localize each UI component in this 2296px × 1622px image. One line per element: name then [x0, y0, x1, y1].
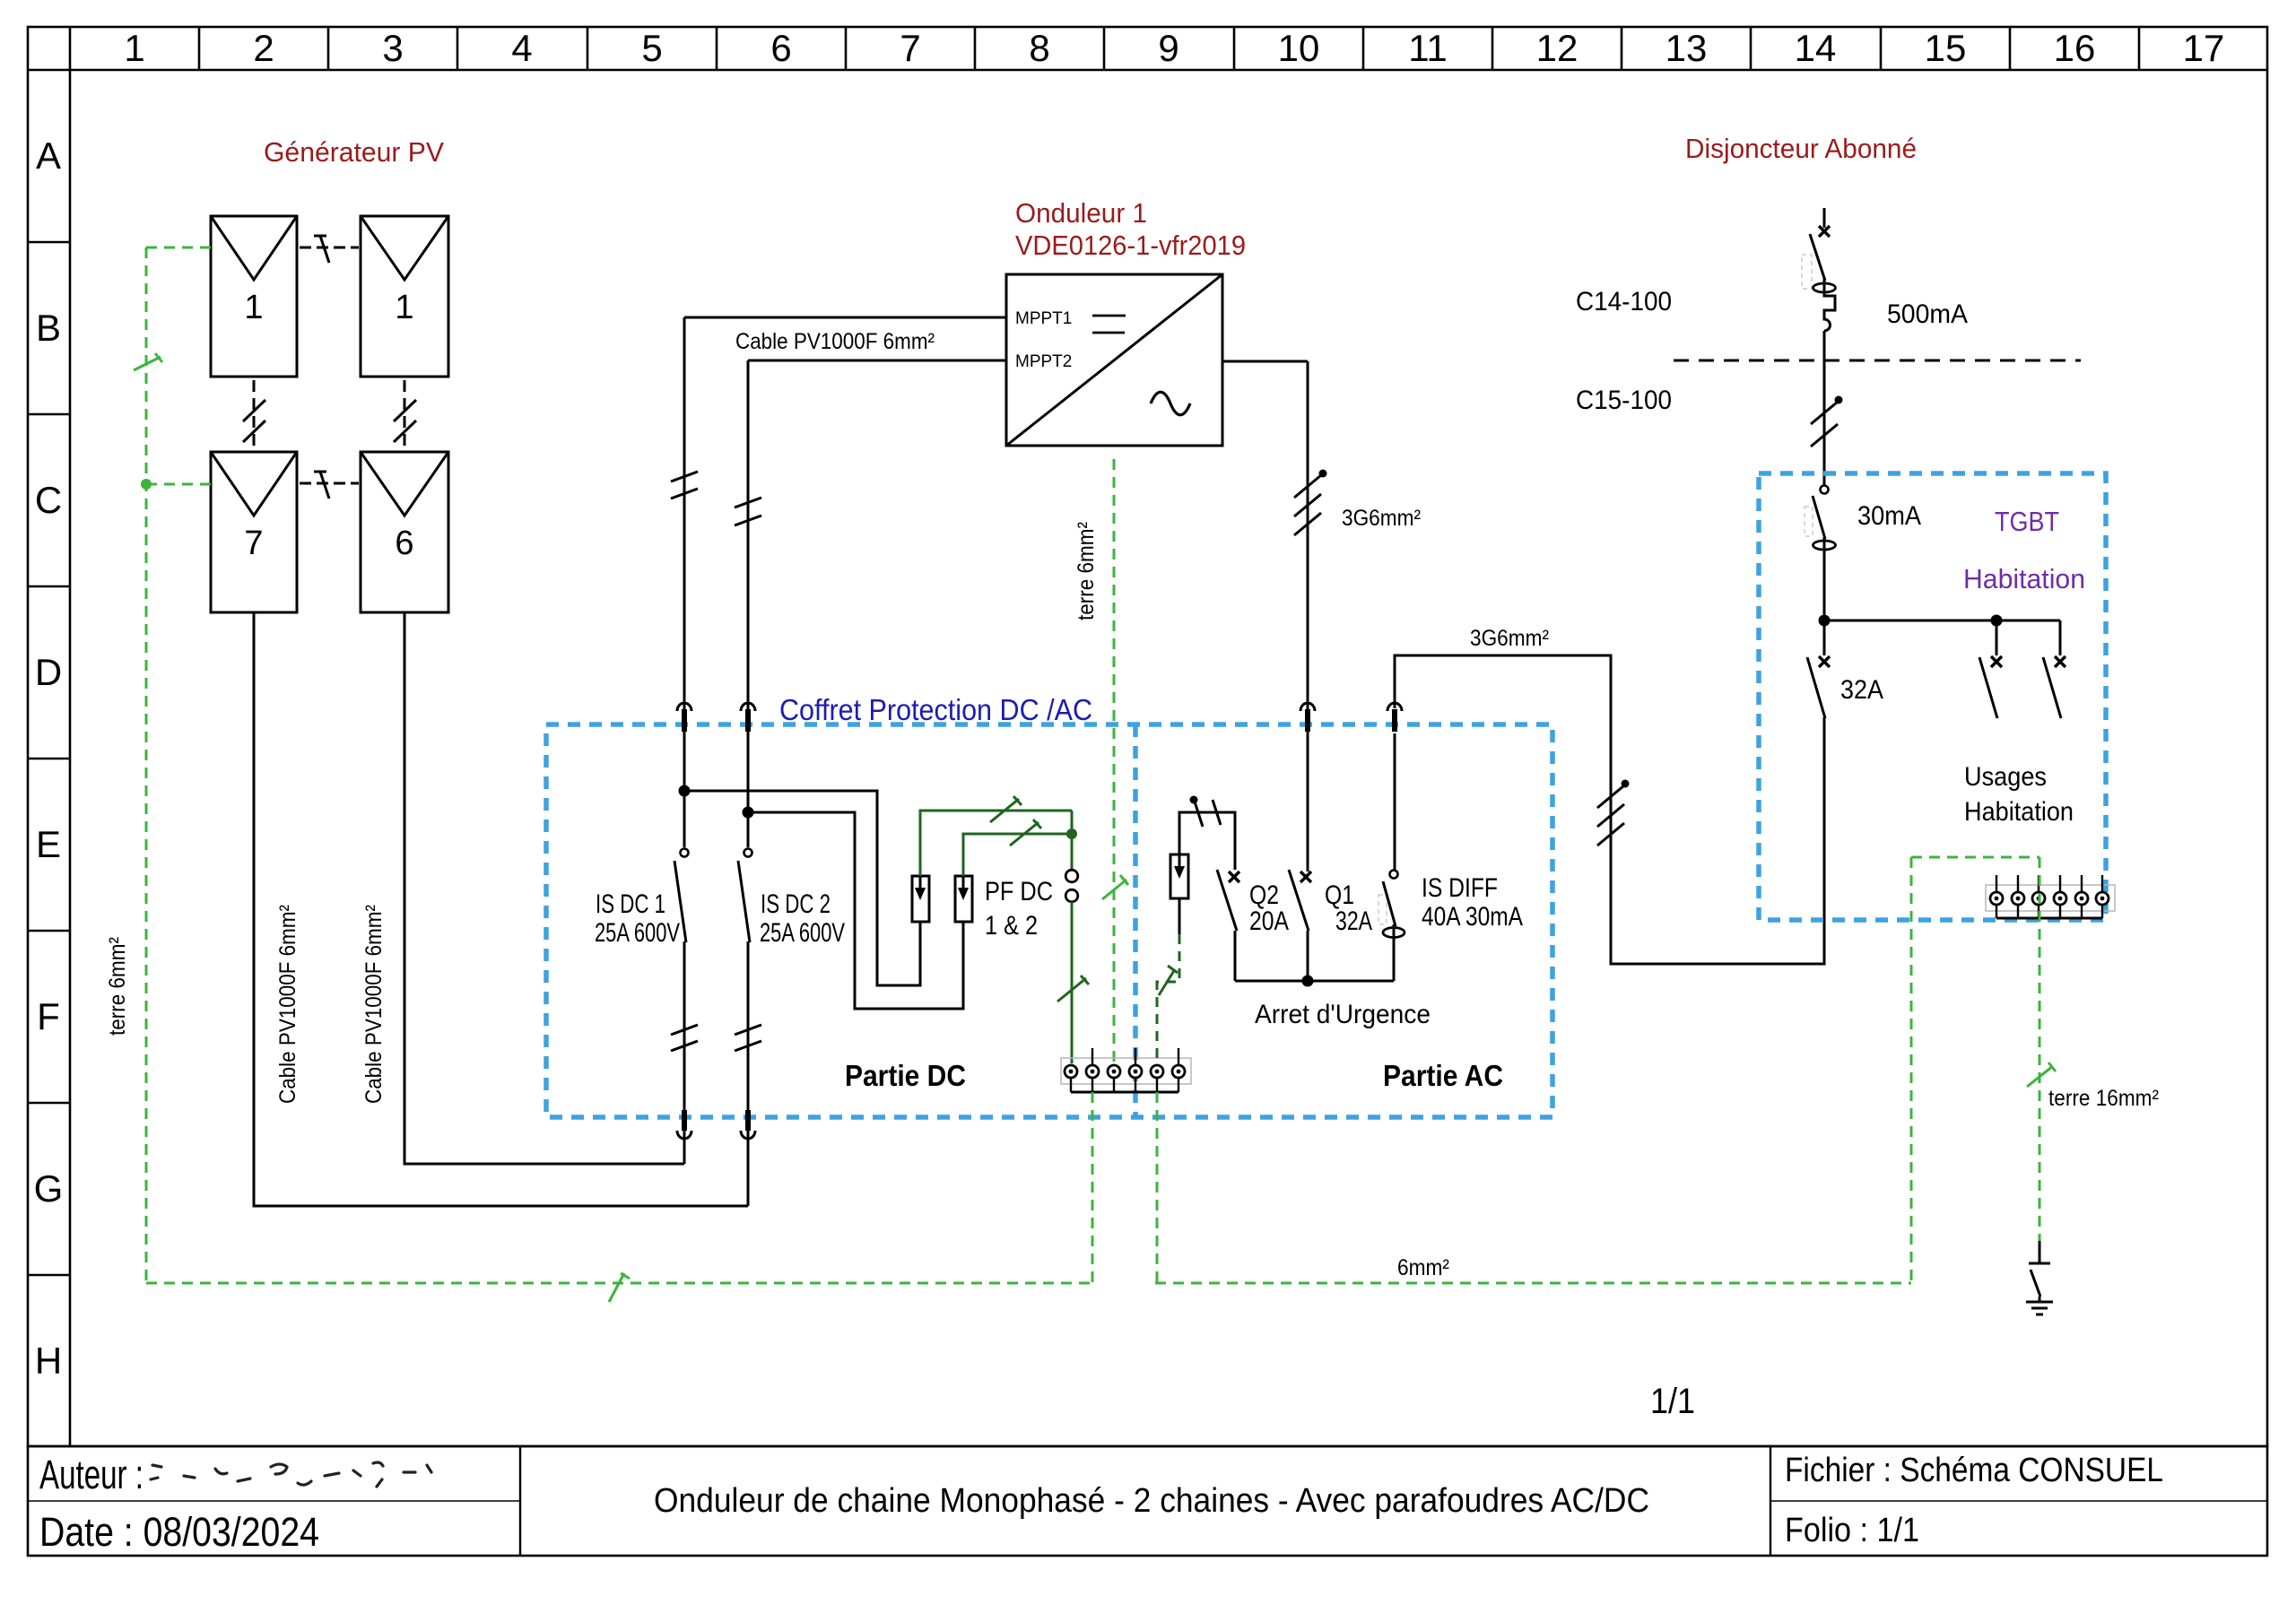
svg-text:Habitation: Habitation: [1963, 563, 2085, 594]
svg-text:1 & 2: 1 & 2: [985, 911, 1038, 941]
svg-text:Cable PV1000F 6mm²: Cable PV1000F 6mm²: [735, 329, 935, 354]
svg-text:1: 1: [124, 27, 144, 69]
wire MPPT1 string: [684, 317, 1006, 1164]
svg-text:MPPT2: MPPT2: [1015, 352, 1072, 371]
DC earth terminal bar: [1061, 1048, 1191, 1092]
svg-text:B: B: [36, 307, 61, 349]
svg-text:8: 8: [1029, 27, 1049, 69]
breaker Q2: [1217, 870, 1239, 981]
ground symbol: [2026, 1302, 2053, 1314]
switch IS DC 2: [738, 847, 753, 942]
inverter DC symbol: [1092, 316, 1126, 333]
breaker 32A: [1807, 620, 1830, 718]
breaker C14-100 500mA: [1802, 208, 1836, 403]
svg-text:32A: 32A: [1335, 906, 1372, 936]
cable mark C15 with dot: [1811, 396, 1843, 486]
svg-text:1: 1: [395, 289, 413, 326]
cable mark wire1 lower: [671, 1025, 698, 1051]
svg-text:20A: 20A: [1249, 906, 1289, 936]
svg-text:Auteur :: Auteur :: [39, 1452, 143, 1497]
svg-text:500mA: 500mA: [1887, 299, 1968, 329]
wire SPD DC 1 feed: [684, 791, 920, 985]
svg-text:D: D: [35, 651, 62, 693]
svg-text:1/1: 1/1: [1650, 1382, 1695, 1421]
svg-text:Onduleur de chaine Monophasé -: Onduleur de chaine Monophasé - 2 chaines…: [654, 1482, 1649, 1520]
svg-text:PF DC: PF DC: [985, 877, 1053, 906]
wire MPPT2 string: [748, 360, 1006, 1206]
inverter U1 box: [1006, 274, 1222, 446]
svg-text:Cable PV1000F 6mm²: Cable PV1000F 6mm²: [361, 905, 387, 1104]
svg-text:Fichier : Schéma CONSUEL: Fichier : Schéma CONSUEL: [1785, 1452, 2163, 1489]
svg-text:Disjoncteur Abonné: Disjoncteur Abonné: [1685, 133, 1917, 164]
svg-text:15: 15: [1925, 27, 1967, 69]
earth wire bottom run right: [1155, 857, 2039, 1283]
svg-text:MPPT1: MPPT1: [1015, 309, 1072, 328]
svg-text:terre 6mm²: terre 6mm²: [1074, 522, 1099, 620]
svg-text:13: 13: [1665, 27, 1708, 69]
cable mark TGBT link with dot: [1597, 780, 1630, 846]
coffret DC/AC divider: [1133, 724, 1138, 1117]
cable mark wire2 upper: [735, 498, 761, 525]
switch IS DC 1: [674, 847, 690, 942]
node junction AC bus: [1302, 976, 1314, 987]
earth slash bottom left run: [609, 1273, 630, 1302]
svg-text:Coffret Protection DC /AC: Coffret Protection DC /AC: [779, 693, 1092, 726]
earth slash on terre 6mm2 line: [1102, 875, 1128, 899]
top cable gland connector wire2: [741, 703, 755, 732]
earth slash SPD2: [1010, 820, 1041, 846]
cable mark wire1 upper: [671, 472, 698, 499]
breaker habitation 1: [1979, 620, 2002, 718]
wire PV string1 to coffret: [404, 612, 684, 1164]
svg-text:6mm²: 6mm²: [1397, 1255, 1449, 1280]
AC bus Arret d'Urgence: [1235, 980, 1394, 983]
svg-text:terre 6mm²: terre 6mm²: [105, 937, 130, 1036]
spark gap circles PF: [1065, 870, 1078, 902]
svg-text:Partie DC: Partie DC: [845, 1059, 966, 1092]
breaker habitation 2: [2043, 620, 2066, 718]
blurred author name remnants: [151, 1462, 431, 1487]
svg-text:IS DIFF: IS DIFF: [1422, 873, 1498, 903]
PV panel string1 module A (1): [211, 216, 297, 377]
earth wire PF AC: [1157, 898, 1179, 1063]
svg-text:Générateur PV: Générateur PV: [264, 136, 444, 168]
svg-text:9: 9: [1158, 27, 1178, 69]
column numbers 1-17: [124, 27, 2224, 69]
svg-text:IS DC 1: IS DC 1: [596, 889, 665, 919]
svg-text:10: 10: [1278, 27, 1320, 69]
svg-text:6: 6: [770, 27, 791, 69]
wire SPD DC 2 feed: [748, 812, 963, 1009]
wire Q2 SPD branch: [1179, 812, 1235, 870]
inverter AC sine symbol: [1151, 392, 1190, 415]
svg-text:A: A: [36, 134, 61, 177]
svg-text:G: G: [34, 1167, 64, 1210]
svg-text:3G6mm²: 3G6mm²: [1342, 506, 1421, 531]
earth electrode: [2029, 1241, 2050, 1302]
PV panel string1 module B (1): [361, 216, 448, 377]
series link between modules left column: [243, 380, 265, 448]
svg-text:terre 16mm²: terre 16mm²: [2048, 1086, 2159, 1111]
svg-text:40A 30mA: 40A 30mA: [1422, 902, 1523, 932]
series connector link top pair: [300, 236, 359, 263]
top cable gland connector AC out: [1387, 703, 1402, 732]
title block: [28, 1446, 2267, 1556]
earth slash terre16: [2027, 1063, 2056, 1087]
svg-text:C: C: [35, 479, 62, 521]
earth wire bottom run left: [146, 1092, 1093, 1283]
surge arrester PF DC 1: [912, 876, 929, 922]
bottom cable gland connector wire1: [677, 1110, 691, 1139]
svg-text:Folio : 1/1: Folio : 1/1: [1785, 1512, 1919, 1549]
surge arrester PF AC: [1170, 854, 1188, 898]
svg-text:Onduleur 1: Onduleur 1: [1015, 197, 1147, 229]
bottom cable gland connector wire2: [741, 1110, 755, 1139]
breaker Q1: [1289, 870, 1311, 981]
svg-text:Habitation: Habitation: [1964, 797, 2074, 827]
svg-text:IS DC 2: IS DC 2: [761, 889, 831, 919]
coffret enclosure box: [546, 724, 1552, 1117]
svg-text:Partie AC: Partie AC: [1383, 1059, 1503, 1092]
cable mark 3G6mm with dot: [1294, 475, 1321, 535]
svg-text:7: 7: [900, 27, 920, 69]
earth slash PF lower: [1057, 976, 1089, 1002]
svg-text:30mA: 30mA: [1857, 501, 1921, 531]
RCD 30mA: [1805, 486, 1836, 621]
svg-text:C15-100: C15-100: [1576, 386, 1672, 415]
cable mark Q2 branch with dot: [1190, 796, 1222, 828]
row letters A-H: [34, 134, 64, 1382]
node junction string1: [679, 785, 691, 797]
svg-text:Arret d'Urgence: Arret d'Urgence: [1255, 1000, 1431, 1029]
svg-text:F: F: [37, 995, 60, 1037]
svg-text:Date : 08/03/2024: Date : 08/03/2024: [39, 1509, 319, 1555]
svg-text:32A: 32A: [1840, 675, 1883, 705]
earth slash mark PV: [134, 353, 162, 370]
svg-text:3: 3: [382, 27, 403, 69]
svg-text:25A 600V: 25A 600V: [760, 918, 845, 948]
svg-text:11: 11: [1408, 27, 1448, 69]
svg-text:E: E: [36, 823, 61, 865]
svg-text:H: H: [35, 1340, 62, 1382]
svg-text:3G6mm²: 3G6mm²: [1470, 626, 1549, 651]
svg-text:Usages: Usages: [1964, 762, 2047, 792]
svg-text:Cable PV1000F 6mm²: Cable PV1000F 6mm²: [275, 905, 300, 1104]
svg-text:C14-100: C14-100: [1576, 287, 1672, 317]
svg-text:5: 5: [641, 27, 662, 69]
PV panel string2 module B (6): [361, 452, 448, 612]
earth wire SPD2: [963, 834, 1072, 876]
series connector link bottom pair: [300, 472, 359, 499]
svg-text:14: 14: [1795, 27, 1837, 69]
svg-text:12: 12: [1536, 27, 1578, 69]
node junction string2: [743, 807, 754, 819]
PV frame earth wire vertical: [146, 247, 211, 1283]
svg-text:17: 17: [2183, 27, 2225, 69]
column header separators: [199, 27, 2139, 70]
PV panel string2 module A (7): [211, 452, 297, 612]
svg-text:1: 1: [244, 289, 263, 326]
TGBT distribution bus: [1819, 615, 2061, 627]
terre 6mm² earth from inverter: [1113, 459, 1116, 1063]
cable mark wire2 lower: [735, 1025, 761, 1051]
wire coffret to TGBT 3G6mm: [1395, 655, 1824, 964]
svg-text:16: 16: [2054, 27, 2096, 69]
TGBT earth terminal bar: [1986, 875, 2115, 918]
series link between modules right column: [394, 380, 416, 448]
isolator IS DIFF: [1378, 733, 1405, 981]
row header separators: [28, 242, 70, 1275]
svg-text:7: 7: [244, 525, 263, 562]
wire inverter AC output: [1222, 361, 1308, 872]
svg-text:25A 600V: 25A 600V: [595, 918, 680, 948]
top cable gland connector wire1: [677, 703, 691, 732]
svg-text:TGBT: TGBT: [1995, 506, 2059, 537]
top cable gland connector AC in: [1300, 703, 1315, 732]
surge arrester PF DC 2: [955, 876, 972, 922]
earth wire SPD1: [920, 811, 1072, 876]
wire PV string2 to coffret: [254, 612, 748, 1206]
dashed delimiter line: [1674, 360, 2081, 362]
svg-text:6: 6: [395, 525, 413, 562]
svg-text:4: 4: [511, 27, 532, 69]
earth slash PF AC: [1159, 966, 1178, 995]
svg-text:VDE0126-1-vfr2019: VDE0126-1-vfr2019: [1015, 230, 1246, 261]
earth slash SPD1: [990, 796, 1022, 822]
earth junction node PV: [141, 479, 152, 490]
earth wire PF to bar: [1071, 902, 1074, 1063]
svg-text:2: 2: [253, 27, 274, 69]
TGBT enclosure box: [1759, 473, 2106, 920]
earth junction node PF: [1066, 811, 1077, 870]
